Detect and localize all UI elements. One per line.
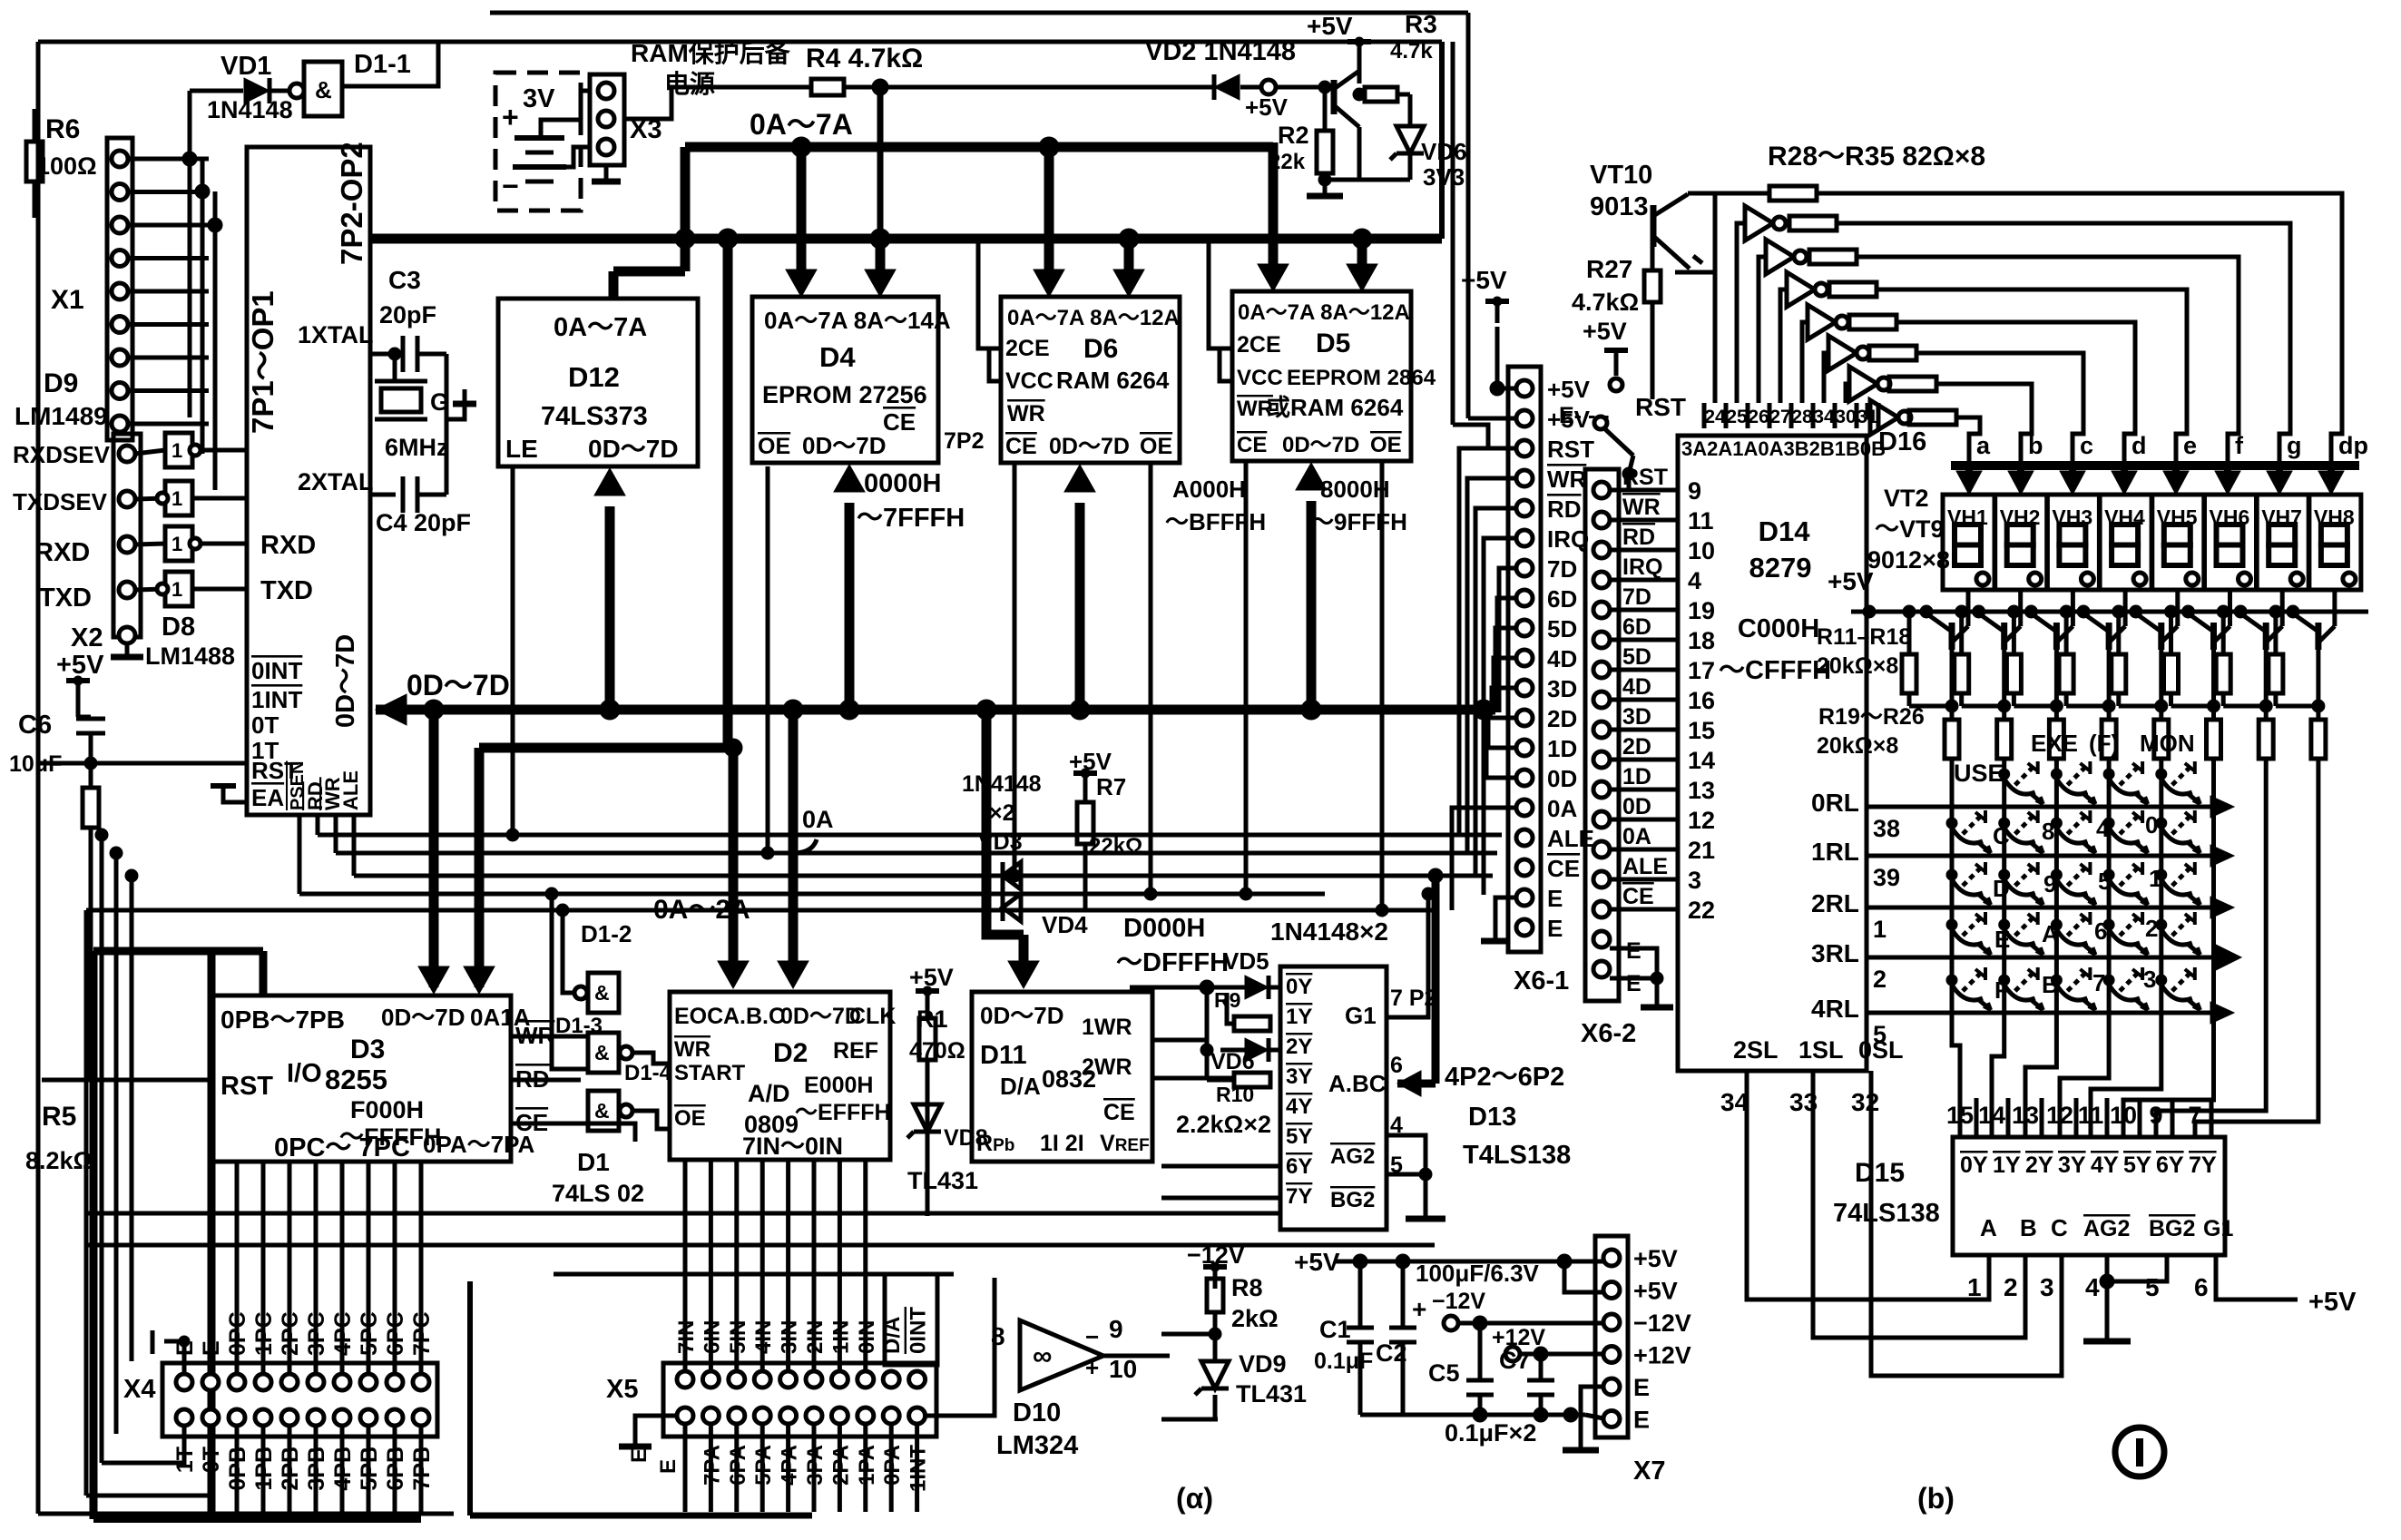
svg-text:EXE: EXE [2031, 730, 2078, 757]
svg-text:7: 7 [2092, 969, 2105, 996]
svg-text:TXD: TXD [260, 576, 313, 605]
svg-text:VH5: VH5 [2157, 505, 2198, 529]
svg-text:D1-1: D1-1 [354, 50, 411, 79]
svg-text:e: e [2183, 432, 2197, 459]
svg-text:G1: G1 [1345, 1002, 1377, 1029]
svg-text:C000H: C000H [1738, 614, 1819, 643]
svg-text:CE: CE [1547, 855, 1580, 882]
svg-text:D13: D13 [1468, 1103, 1516, 1132]
svg-text:+5V: +5V [1245, 93, 1289, 121]
svg-text:WR: WR [1007, 401, 1045, 427]
svg-text:WR: WR [1237, 397, 1273, 421]
svg-text:6D: 6D [1547, 585, 1577, 613]
svg-text:D5: D5 [1316, 329, 1350, 358]
svg-text:7D: 7D [1622, 584, 1651, 610]
svg-text:6: 6 [2194, 1273, 2209, 1301]
svg-text:D14: D14 [1759, 515, 1811, 547]
svg-text:2XTAL: 2XTAL [298, 468, 374, 495]
svg-text:0A: 0A [1547, 795, 1577, 822]
svg-text:7D: 7D [1547, 555, 1577, 583]
svg-text:1INT: 1INT [251, 686, 302, 713]
svg-text:CLK: CLK [849, 1004, 896, 1029]
svg-text:4D: 4D [1622, 674, 1651, 700]
svg-text:22: 22 [1688, 897, 1715, 924]
svg-text:0D～7D: 0D～7D [802, 432, 886, 459]
svg-text:+5V: +5V [1633, 1278, 1678, 1305]
svg-text:6: 6 [1390, 1053, 1403, 1078]
svg-text:&: & [594, 1099, 610, 1123]
svg-text:E: E [1547, 915, 1563, 942]
svg-text:10: 10 [1109, 1355, 1137, 1383]
svg-text:R28～R35 82Ω×8: R28～R35 82Ω×8 [1768, 142, 1985, 172]
svg-text:1: 1 [171, 487, 182, 510]
svg-text:A/D: A/D [748, 1080, 790, 1107]
svg-text:39: 39 [1873, 864, 1900, 891]
svg-text:0D～7D: 0D～7D [588, 435, 679, 463]
svg-text:g: g [2287, 432, 2302, 459]
svg-text:B: B [2042, 971, 2059, 998]
svg-text:VD4: VD4 [1042, 911, 1088, 938]
svg-text:7IN～0IN: 7IN～0IN [742, 1133, 843, 1160]
svg-text:26: 26 [1748, 407, 1769, 427]
svg-text:R5: R5 [42, 1102, 76, 1132]
svg-text:5: 5 [2098, 868, 2111, 895]
svg-text:LM1489: LM1489 [15, 402, 108, 430]
svg-text:6D: 6D [1622, 614, 1651, 640]
svg-text:0PC～ 7PC: 0PC～ 7PC [274, 1133, 410, 1162]
svg-text:EEPROM 2864: EEPROM 2864 [1287, 366, 1436, 390]
svg-text:EPROM 27256: EPROM 27256 [762, 381, 927, 408]
svg-text:CE: CE [1103, 1100, 1135, 1125]
svg-text:EA: EA [251, 784, 284, 811]
svg-text:VT2: VT2 [1884, 485, 1929, 512]
svg-text:R3: R3 [1405, 10, 1437, 38]
svg-text:&: & [594, 981, 610, 1005]
svg-text:7Y: 7Y [2189, 1153, 2217, 1178]
svg-text:D3: D3 [350, 1035, 385, 1064]
svg-text:3V: 3V [523, 84, 555, 113]
svg-text:E: E [1633, 1407, 1650, 1434]
svg-text:R2: R2 [1278, 122, 1309, 149]
svg-text:1SL: 1SL [1798, 1036, 1844, 1064]
svg-text:BG2: BG2 [1330, 1188, 1375, 1212]
svg-text:8: 8 [2042, 818, 2054, 845]
svg-text:14: 14 [1688, 747, 1715, 774]
svg-text:0Y: 0Y [1286, 975, 1312, 999]
svg-text:X6-1: X6-1 [1514, 966, 1569, 996]
svg-text:+12V: +12V [1633, 1342, 1691, 1369]
svg-text:4: 4 [1688, 567, 1701, 594]
svg-text:C5: C5 [1428, 1359, 1460, 1387]
svg-text:−12V: −12V [1633, 1309, 1691, 1337]
svg-text:I/O: I/O [287, 1059, 322, 1088]
svg-text:4Y: 4Y [1286, 1094, 1312, 1119]
svg-text:LE: LE [505, 435, 538, 463]
svg-text:X5: X5 [606, 1375, 638, 1404]
svg-text:0INT: 0INT [251, 657, 302, 684]
svg-text:7Y: 7Y [1286, 1184, 1312, 1209]
svg-text:14: 14 [1978, 1102, 2005, 1129]
svg-text:6Y: 6Y [1286, 1154, 1312, 1179]
svg-text:ALE: ALE [339, 770, 362, 810]
svg-text:20kΩ×8: 20kΩ×8 [1817, 733, 1898, 759]
svg-text:CE: CE [1622, 884, 1654, 909]
svg-text:D1: D1 [577, 1148, 610, 1176]
svg-text:E: E [1633, 1374, 1650, 1401]
svg-text:VREF: VREF [1100, 1131, 1150, 1156]
svg-text:RST: RST [1547, 436, 1594, 463]
svg-text:0000H: 0000H [864, 469, 941, 498]
svg-text:0A～7A 8A～12A: 0A～7A 8A～12A [1007, 306, 1180, 330]
svg-text:9013: 9013 [1590, 192, 1649, 221]
svg-text:RAM保护后备: RAM保护后备 [631, 39, 791, 67]
svg-text:1: 1 [171, 533, 182, 555]
svg-text:+5V: +5V [2308, 1288, 2357, 1317]
svg-text:VCC: VCC [1237, 366, 1283, 390]
svg-text:1: 1 [1873, 916, 1886, 943]
svg-text:38: 38 [1873, 815, 1900, 842]
svg-text:15: 15 [1688, 717, 1715, 744]
svg-text:VH2: VH2 [2000, 505, 2041, 529]
svg-text:D11: D11 [980, 1041, 1027, 1070]
svg-text:4RL: 4RL [1811, 995, 1859, 1023]
svg-text:R11–R18: R11–R18 [1817, 624, 1911, 650]
svg-text:CE: CE [1237, 433, 1267, 457]
svg-text:3D: 3D [1547, 675, 1577, 702]
svg-text:−: − [502, 170, 519, 202]
svg-text:MON: MON [2140, 730, 2195, 757]
svg-text:0SL: 0SL [1858, 1036, 1904, 1064]
svg-text:RXD: RXD [260, 531, 316, 560]
svg-text:9012×8: 9012×8 [1867, 546, 1950, 574]
svg-text:f: f [2235, 432, 2244, 459]
svg-text:RST: RST [1635, 393, 1686, 421]
svg-text:0D～7D: 0D～7D [331, 634, 360, 728]
svg-text:12: 12 [1688, 807, 1715, 834]
svg-text:2Y: 2Y [2025, 1153, 2053, 1178]
svg-text:X1: X1 [51, 285, 84, 315]
svg-text:1: 1 [1967, 1273, 1982, 1301]
svg-text:0D～7D: 0D～7D [980, 1002, 1063, 1029]
svg-text:D16: D16 [1878, 427, 1926, 456]
svg-text:C: C [2051, 1214, 2068, 1241]
svg-text:～7FFFH: ～7FFFH [857, 504, 965, 533]
svg-text:74LS373: 74LS373 [541, 402, 648, 431]
svg-text:RXD: RXD [34, 538, 90, 567]
svg-text:4P2～6P2: 4P2～6P2 [1445, 1063, 1564, 1092]
svg-text:2: 2 [2145, 915, 2158, 942]
svg-text:EOC: EOC [674, 1004, 723, 1029]
svg-text:3: 3 [1688, 867, 1701, 894]
svg-text:74LS 02: 74LS 02 [552, 1180, 644, 1207]
svg-text:RAM 6264: RAM 6264 [1056, 367, 1170, 394]
svg-text:A: A [2042, 920, 2059, 947]
svg-text:+5V: +5V [1547, 376, 1591, 403]
svg-text:7P1～OP1: 7P1～OP1 [246, 290, 279, 434]
svg-text:D: D [1993, 875, 2010, 902]
svg-text:2D: 2D [1547, 705, 1577, 732]
svg-text:8255: 8255 [325, 1064, 387, 1095]
svg-text:A: A [1980, 1214, 1997, 1241]
svg-text:0T: 0T [251, 711, 279, 739]
svg-text:LM1488: LM1488 [145, 642, 235, 670]
svg-text:−12V: −12V [1432, 1289, 1485, 1314]
svg-text:～9FFFH: ～9FFFH [1310, 508, 1407, 535]
svg-text:13: 13 [1688, 777, 1715, 804]
svg-text:VH4: VH4 [2104, 505, 2145, 529]
svg-text:21: 21 [1688, 837, 1715, 864]
svg-text:9: 9 [2043, 870, 2056, 898]
svg-text:IRQ: IRQ [1622, 554, 1662, 580]
svg-text:1XTAL: 1XTAL [298, 321, 374, 348]
svg-text:7: 7 [2188, 1102, 2201, 1129]
svg-text:X6-2: X6-2 [1581, 1019, 1636, 1048]
svg-text:&: & [594, 1041, 610, 1064]
svg-text:5Y: 5Y [2123, 1153, 2151, 1178]
svg-text:7P2: 7P2 [944, 428, 984, 454]
svg-text:5: 5 [2145, 1273, 2160, 1301]
svg-text:+5V: +5V [1633, 1245, 1678, 1272]
svg-text:d: d [2131, 432, 2147, 459]
svg-text:+: + [1085, 1354, 1099, 1381]
svg-text:0A～7A 8A～12A: 0A～7A 8A～12A [1238, 300, 1410, 325]
svg-text:1T: 1T [172, 1447, 198, 1473]
svg-text:D6: D6 [1083, 334, 1118, 364]
svg-text:74LS138: 74LS138 [1833, 1199, 1940, 1228]
svg-text:RPb: RPb [976, 1131, 1014, 1156]
svg-text:20kΩ×8: 20kΩ×8 [1817, 653, 1898, 679]
svg-text:VT10: VT10 [1590, 161, 1652, 190]
svg-text:+5V: +5V [1583, 318, 1627, 345]
svg-text:T4LS138: T4LS138 [1463, 1141, 1571, 1170]
svg-text:0.1μF×2: 0.1μF×2 [1445, 1419, 1536, 1447]
svg-text:1RL: 1RL [1811, 838, 1859, 866]
svg-text:(α): (α) [1176, 1482, 1213, 1515]
svg-text:+5V: +5V [1307, 12, 1353, 40]
svg-text:(F): (F) [2089, 730, 2119, 757]
svg-text:+5V: +5V [1828, 567, 1874, 595]
svg-text:4: 4 [2085, 1273, 2100, 1301]
svg-text:32: 32 [1851, 1088, 1879, 1116]
svg-text:R27: R27 [1586, 255, 1632, 283]
svg-text:13: 13 [2012, 1102, 2039, 1129]
svg-text:R6: R6 [45, 114, 80, 144]
svg-text:A.BC: A.BC [1328, 1070, 1387, 1097]
svg-text:2CE: 2CE [1005, 336, 1050, 361]
svg-text:0D～7D: 0D～7D [407, 669, 510, 701]
svg-text:TXDSEV: TXDSEV [13, 488, 108, 515]
svg-text:VD2 1N4148: VD2 1N4148 [1145, 37, 1296, 66]
svg-text:6Y: 6Y [2156, 1153, 2184, 1178]
svg-text:11: 11 [2078, 1102, 2104, 1129]
svg-text:8000H: 8000H [1320, 476, 1390, 503]
svg-text:C: C [1993, 822, 2010, 849]
svg-text:E: E [199, 1340, 224, 1356]
svg-text:8279: 8279 [1749, 552, 1812, 584]
svg-text:0: 0 [2145, 811, 2158, 839]
svg-text:10: 10 [1688, 537, 1715, 564]
svg-text:27: 27 [1769, 407, 1790, 427]
svg-text:D8: D8 [162, 613, 195, 642]
svg-text:19: 19 [1688, 597, 1715, 624]
svg-text:+: + [1412, 1295, 1426, 1323]
svg-text:～VT9: ～VT9 [1875, 515, 1945, 543]
svg-text:LM324: LM324 [996, 1431, 1078, 1460]
svg-text:17: 17 [1688, 657, 1715, 684]
svg-text:0RL: 0RL [1811, 789, 1859, 817]
svg-text:USE: USE [1954, 760, 2004, 787]
svg-text:VH3: VH3 [2052, 505, 2092, 529]
svg-text:D12: D12 [568, 361, 620, 393]
svg-text:0PB～7PB: 0PB～7PB [220, 1005, 345, 1034]
svg-text:2.2kΩ×2: 2.2kΩ×2 [1176, 1111, 1271, 1138]
svg-text:100μF/6.3V: 100μF/6.3V [1416, 1260, 1540, 1287]
svg-text:OE: OE [758, 434, 790, 459]
svg-text:2WR: 2WR [1082, 1054, 1132, 1080]
svg-text:1N4148×2: 1N4148×2 [1270, 917, 1388, 946]
svg-text:VD5: VD5 [1223, 947, 1269, 975]
svg-text:24: 24 [1704, 407, 1726, 427]
svg-text:1Y: 1Y [1286, 1005, 1312, 1029]
svg-text:E: E [627, 1448, 652, 1463]
svg-text:2: 2 [1873, 966, 1886, 993]
svg-text:E: E [1626, 938, 1641, 964]
svg-text:TL431: TL431 [907, 1167, 978, 1194]
svg-text:C1: C1 [1319, 1316, 1351, 1343]
svg-text:9: 9 [1109, 1315, 1123, 1343]
svg-text:18: 18 [1688, 627, 1715, 654]
svg-text:VH7: VH7 [2261, 505, 2302, 529]
svg-text:～DFFFH: ～DFFFH [1116, 948, 1229, 977]
svg-text:10: 10 [2110, 1102, 2137, 1129]
svg-text:0D: 0D [1547, 765, 1577, 792]
svg-text:AG2: AG2 [1330, 1144, 1375, 1169]
svg-text:2kΩ: 2kΩ [1231, 1305, 1279, 1332]
svg-text:E: E [1994, 926, 2010, 953]
svg-text:1D: 1D [1622, 764, 1651, 790]
svg-text:R8: R8 [1231, 1274, 1263, 1301]
svg-text:4: 4 [2096, 815, 2110, 842]
svg-text:0A: 0A [1622, 824, 1651, 849]
svg-text:&: & [315, 76, 332, 103]
svg-text:R4 4.7kΩ: R4 4.7kΩ [806, 44, 923, 74]
svg-text:A.B.C: A.B.C [723, 1004, 785, 1029]
svg-text:CE: CE [883, 408, 916, 436]
svg-text:2: 2 [2004, 1273, 2018, 1301]
svg-text:1D: 1D [1547, 735, 1577, 762]
svg-text:9: 9 [2149, 1102, 2162, 1129]
svg-text:OE: OE [1370, 433, 1402, 457]
svg-text:4D: 4D [1547, 645, 1577, 672]
svg-text:REF: REF [833, 1038, 878, 1064]
svg-text:D1-2: D1-2 [581, 920, 632, 947]
svg-text:×2: ×2 [989, 800, 1015, 826]
svg-text:2D: 2D [1622, 734, 1651, 760]
svg-text:AG2: AG2 [2083, 1216, 2130, 1241]
svg-text:RST: RST [220, 1072, 273, 1101]
svg-text:RD: RD [1622, 525, 1655, 550]
svg-text:4Y: 4Y [2091, 1153, 2119, 1178]
svg-text:R7: R7 [1096, 773, 1126, 800]
svg-text:5D: 5D [1622, 644, 1651, 670]
svg-text:0D～7D: 0D～7D [1049, 434, 1130, 459]
svg-text:C6: C6 [18, 711, 52, 740]
svg-text:WR: WR [1547, 466, 1587, 493]
svg-text:D9: D9 [44, 368, 78, 398]
svg-text:WR: WR [674, 1037, 710, 1062]
svg-text:dp: dp [2338, 432, 2368, 459]
svg-text:30: 30 [1835, 407, 1856, 427]
svg-text:BG2: BG2 [2149, 1216, 2195, 1241]
svg-text:～BFFFH: ～BFFFH [1165, 508, 1266, 535]
svg-text:0A～7A 8A～14A: 0A～7A 8A～14A [764, 307, 951, 334]
svg-text:0Y: 0Y [1960, 1153, 1988, 1178]
svg-text:D4: D4 [819, 341, 856, 373]
svg-text:9: 9 [1688, 477, 1701, 505]
svg-text:5D: 5D [1547, 615, 1577, 642]
svg-text:RD: RD [1547, 495, 1582, 523]
svg-text:D10: D10 [1013, 1398, 1061, 1427]
svg-text:7P2-OP2: 7P2-OP2 [335, 142, 368, 265]
svg-text:WR: WR [1622, 495, 1661, 520]
svg-text:3D: 3D [1622, 704, 1651, 730]
svg-text:D2: D2 [773, 1038, 808, 1068]
svg-text:OE: OE [674, 1106, 706, 1131]
svg-text:34: 34 [1813, 407, 1835, 427]
svg-text:+5V: +5V [1461, 266, 1507, 294]
svg-text:TL431: TL431 [1236, 1380, 1307, 1408]
svg-text:E: E [1626, 971, 1641, 996]
svg-text:4.7k: 4.7k [1390, 39, 1433, 64]
svg-text:0D: 0D [1622, 794, 1651, 819]
svg-text:X7: X7 [1633, 1457, 1665, 1486]
svg-text:～EFFFH: ～EFFFH [795, 1100, 891, 1125]
svg-text:20pF: 20pF [379, 301, 436, 329]
svg-text:1N4148: 1N4148 [962, 771, 1042, 797]
svg-text:16: 16 [1688, 687, 1715, 714]
svg-text:B: B [2020, 1214, 2037, 1241]
svg-text:0A: 0A [802, 806, 834, 833]
svg-text:12: 12 [2046, 1102, 2073, 1129]
svg-text:3: 3 [2143, 966, 2156, 993]
svg-text:或RAM 6264: 或RAM 6264 [1267, 394, 1404, 421]
svg-text:0A～7A: 0A～7A [750, 108, 853, 141]
svg-text:4.7kΩ: 4.7kΩ [1572, 289, 1639, 316]
svg-text:D/A: D/A [1000, 1073, 1041, 1100]
svg-text:0T: 0T [199, 1447, 224, 1473]
svg-text:D15: D15 [1855, 1158, 1905, 1188]
svg-text:1WR: 1WR [1082, 1015, 1132, 1040]
svg-text:C7: C7 [1499, 1347, 1531, 1374]
svg-text:E: E [1547, 885, 1563, 912]
svg-text:OE: OE [1140, 434, 1172, 459]
svg-text:6: 6 [2094, 917, 2107, 945]
svg-text:TXD: TXD [39, 584, 92, 613]
svg-text:1Y: 1Y [1993, 1153, 2021, 1178]
svg-text:2RL: 2RL [1811, 889, 1859, 917]
svg-text:A000H: A000H [1172, 476, 1246, 503]
svg-text:3Y: 3Y [2058, 1153, 2086, 1178]
svg-text:1: 1 [171, 439, 182, 462]
svg-text:E000H: E000H [804, 1073, 873, 1098]
svg-text:VD1: VD1 [220, 52, 271, 81]
svg-text:F000H: F000H [350, 1096, 424, 1123]
svg-text:1: 1 [171, 578, 182, 601]
svg-text:5Y: 5Y [1286, 1124, 1312, 1149]
svg-text:0A～7A: 0A～7A [554, 313, 647, 342]
svg-text:RXDSEV: RXDSEV [13, 441, 111, 468]
svg-text:C3: C3 [388, 266, 421, 294]
